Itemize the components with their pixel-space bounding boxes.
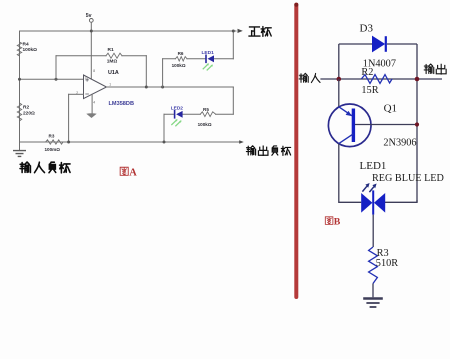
LED LED1 REG BLUE LED (bowtie symbol) (360, 160, 444, 215)
svg-text:LM358DB: LM358DB (109, 101, 135, 107)
svg-text:2N3906: 2N3906 (383, 137, 416, 148)
node arrow 正极 terminal (238, 29, 243, 33)
resistor R2 220Ω (17, 103, 35, 121)
node junction input/left rail (337, 77, 342, 82)
LED LED1 (202, 50, 215, 70)
resistor R6 100kΩ (172, 51, 187, 68)
svg-text:100kΩ: 100kΩ (172, 63, 186, 68)
wire LED1 right riser to top rail (232, 31, 234, 59)
svg-text:REG BLUE LED: REG BLUE LED (372, 173, 444, 184)
wire inverting drop to bottom rail (68, 94, 70, 142)
op-amp U1A triangle (76, 69, 134, 107)
svg-text:100kΩ: 100kΩ (198, 122, 212, 127)
svg-text:1: 1 (109, 83, 111, 87)
wire right rail (416, 44, 418, 202)
wire LED2/R5 branch (164, 113, 233, 115)
svg-text:100kΩ: 100kΩ (23, 47, 38, 53)
svg-text:R1: R1 (108, 47, 114, 53)
svg-text:1MΩ: 1MΩ (107, 59, 118, 65)
svg-text:15R: 15R (361, 85, 378, 96)
svg-text:3: 3 (85, 75, 87, 79)
wire output line y=87 (107, 86, 234, 88)
wire top rail (20, 30, 237, 32)
node junction output/R1 (145, 86, 148, 89)
divider red line (294, 3, 298, 297)
svg-text:R2: R2 (361, 67, 373, 78)
svg-text:220Ω: 220Ω (23, 111, 35, 117)
power 5v (86, 13, 93, 22)
svg-text:100mΩ: 100mΩ (45, 147, 61, 152)
svg-text:LED2: LED2 (171, 105, 184, 111)
node arrow 输出负极 terminal (239, 140, 244, 144)
node junction bottom/inverting drop (67, 141, 70, 144)
wire noninverting input y=79.3 (20, 78, 84, 80)
svg-text:R2: R2 (23, 104, 29, 110)
ground earth (figure B) (363, 299, 383, 308)
wire emitter riser (338, 79, 340, 107)
svg-text:D3: D3 (360, 23, 374, 35)
wire bottom rail y=142 (20, 141, 241, 143)
svg-text:A: A (129, 168, 137, 179)
svg-text:R4: R4 (23, 42, 29, 48)
transistor Q1 2N3906 (PNP) (328, 103, 416, 149)
wire op-amp V- pin (91, 94, 93, 113)
node junction bottom/LED2 drop (163, 141, 166, 144)
wire inverting input y=94.3 (69, 93, 84, 95)
svg-text:LED1: LED1 (202, 50, 215, 56)
node junction base/right rail (415, 122, 419, 126)
resistor R1 1MΩ (106, 47, 122, 65)
node junction top rail corner (232, 30, 235, 33)
wire R3 to ground (372, 284, 374, 298)
wire D3 branch top (339, 43, 417, 45)
svg-text:4: 4 (93, 100, 95, 104)
wire 5v stub to rail and op-amp V+ pin (90, 22, 92, 79)
label 正极 (positive) (249, 27, 271, 37)
wire R1 feedback line (56, 55, 146, 57)
svg-text:U1A: U1A (108, 70, 119, 76)
wire left rail (19, 31, 21, 142)
ground main (earth) (14, 142, 26, 156)
wire main input line y=79 (320, 78, 442, 80)
resistor R2 15R (blue zigzag on main line) (361, 67, 392, 96)
wire right riser output to LED2 branch (232, 87, 234, 114)
resistor R3 100mΩ (shunt) (45, 134, 64, 152)
svg-text:5v: 5v (86, 13, 92, 19)
resistor R5 100kΩ (198, 107, 216, 127)
wire R6 branch left riser (162, 59, 164, 87)
LED LED2 (171, 105, 184, 125)
label 输入 (input) (299, 73, 320, 82)
node junction +input / R1 tap (55, 78, 58, 81)
resistor R3 510R (vertical blue zigzag) (369, 247, 399, 284)
svg-text:B: B (334, 217, 341, 228)
label 输出 (output) (424, 64, 446, 74)
svg-text:Q1: Q1 (384, 103, 397, 115)
wire LED right to rail corner (385, 200, 417, 202)
svg-text:R3: R3 (49, 134, 55, 139)
wire R6/LED1 branch (163, 58, 234, 60)
wire left rail riser to D3 branch (338, 44, 340, 79)
node junction output/right rail (415, 77, 420, 82)
label 图B (figure B) red (325, 217, 340, 228)
label 输入负极 (input negative) (20, 162, 70, 173)
svg-text:R5: R5 (203, 107, 209, 112)
node junction rail / +input (18, 78, 21, 81)
wire collector drop and LED feed (339, 144, 362, 203)
svg-text:8: 8 (93, 69, 95, 73)
wire base to right rail (355, 124, 417, 126)
label 图A (figure A) red (120, 167, 137, 178)
diode D3 1N4007 (360, 23, 396, 70)
wire LED to R3 (372, 215, 374, 247)
ground op-amp (signal ground dish) (86, 113, 96, 118)
wire LED2 branch left drop (163, 114, 165, 142)
svg-text:R6: R6 (178, 51, 184, 56)
node junction output/R6 branch (161, 86, 164, 89)
wire R1 right drop to output (145, 56, 147, 87)
wire R1 tap vertical (55, 56, 57, 80)
svg-text:510R: 510R (376, 258, 398, 269)
node junction at 5v rail (90, 30, 93, 33)
svg-text:LED1: LED1 (360, 160, 387, 172)
resistor R4 100kΩ (17, 42, 37, 56)
label 输出负极 (output negative) (246, 146, 290, 156)
